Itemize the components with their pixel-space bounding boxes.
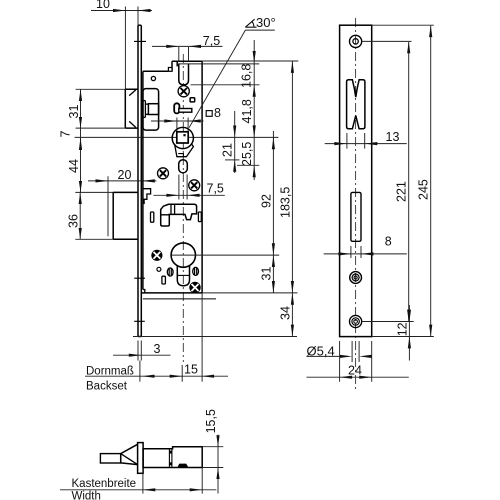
30 degree note with leader [189,15,276,128]
dimension 7,5 (oval hole) [153,175,224,200]
dimension 36 (deadbolt height) [67,192,114,239]
follower centre extension line (y=137.4) [75,136,279,138]
svg-text:21: 21 [221,143,235,157]
small rect right of drive slide [198,212,201,222]
dimension 31 (latch height) [67,89,125,128]
screw S3 [189,180,200,191]
case inner top line [177,63,259,65]
oval centre extension [237,164,259,166]
svg-text:31: 31 [67,105,81,119]
svg-text:10: 10 [96,0,110,11]
small pin circle (case upper left) [151,76,155,80]
top screw hole [350,35,362,47]
drive slide (boot shaped) [161,204,197,226]
small rect left of drive slide [151,212,154,222]
faceplate screw hole ticks [134,41,146,321]
locking pin lever [174,103,192,113]
screw S1 (top phillips) [178,86,189,97]
slot bottom extension [191,84,260,86]
knurled pin right [193,267,199,275]
case bottom-front notch [143,290,145,293]
svg-text:183,5: 183,5 [278,187,292,218]
svg-text:92: 92 [259,194,273,208]
svg-text:7,5: 7,5 [207,181,224,195]
latch tail boss behind faceplate [143,89,159,131]
svg-text:Backset: Backset [86,380,128,392]
Kastenbreite / Width label and dimension [60,468,216,500]
profile cylinder hole [171,243,195,286]
follower cam skirt [175,143,194,156]
svg-text:Width: Width [72,491,101,500]
dimension 183,5 / 34 line [278,61,294,337]
small rect near cylinder [162,276,166,284]
svg-text:13: 13 [386,130,400,144]
screw SB (dark) [189,282,200,293]
dimension 10 (latch projection) [91,0,152,89]
svg-text:Kastenbreite: Kastenbreite [72,478,137,490]
svg-text:8: 8 [214,106,221,120]
cylinder centre extension [171,254,279,256]
latch bolt head [125,89,138,128]
bottom screw hole [350,315,362,327]
svg-text:20: 20 [118,168,132,182]
small square hole [190,98,195,102]
latch bevel tick marks [129,90,136,128]
stair-step bracket behind faceplate [143,189,151,204]
dimension 13 (slot width) [325,130,407,149]
dimension diameter 5,4 [306,341,371,362]
dimension 245 [417,25,433,336]
Dornmass / Backset label and dimension [85,366,228,393]
faceplate (top view) [138,443,144,474]
dimension 15 (axis to case back) [140,293,214,382]
faceplate centreline [355,18,357,389]
small tab on case ledge [168,68,172,72]
middle screw hole [350,272,362,284]
dimension 21 [221,111,240,173]
faceplate bottom extension [133,336,297,338]
dimension 221 [395,41,411,321]
dimension 92 / 31 line [259,131,275,293]
dimension 12 [395,305,411,361]
svg-text:41,8: 41,8 [240,99,254,123]
svg-text:15,5: 15,5 [204,409,218,433]
lower slot [351,192,361,241]
case bottom extension [202,292,297,294]
deadbolt head (side view box) [113,192,138,239]
dimension 44 (axis to deadbolt top) [67,152,82,192]
label square-8 (follower nut) [206,106,221,120]
svg-text:245: 245 [417,179,431,200]
svg-text:24: 24 [348,363,362,377]
faceplate (side view, vertical strip) [138,25,141,336]
extension lines right view [363,25,434,336]
dimension 7 (latch bottom to axis) [59,128,83,152]
oval hole [179,160,188,173]
screw SA (dark) [151,250,162,261]
latch stem (top view) [100,454,120,463]
svg-text:8: 8 [385,235,392,249]
dimension 3 (faceplate thickness) [113,341,171,361]
faceplate outline [340,25,372,336]
dimension 7,5 (top, slot width) [152,34,223,62]
small circle near cylinder [157,267,161,271]
svg-text:Ø5,4: Ø5,4 [307,343,335,358]
svg-text:3: 3 [154,342,161,356]
svg-text:44: 44 [67,159,81,173]
svg-text:34: 34 [278,306,292,320]
latch head (top view wedge) [121,444,138,464]
latch spring slot (top) [179,64,189,85]
svg-text:7: 7 [59,131,73,138]
angle symbol [245,19,256,27]
dimension 24 (faceplate width) [307,341,409,382]
svg-text:31: 31 [259,267,273,281]
svg-text:15: 15 [184,363,198,377]
divider channel [169,449,172,468]
svg-text:221: 221 [395,181,409,202]
screw S2 [158,168,169,179]
case top extension [202,60,298,62]
dimension 15,5 (case height top view) [202,409,223,493]
svg-text:7,5: 7,5 [203,34,220,48]
follower (square nut with cam) [172,127,193,156]
knurled pin left [167,268,173,276]
svg-text:30°: 30° [256,15,276,30]
latch guide slot (pulley shaped) [347,80,365,129]
dimension 20 (deadbolt head) [88,168,156,237]
dimension square-8 leaders [151,118,204,132]
svg-text:36: 36 [67,214,81,228]
lock case outline [142,61,259,299]
bottom tab [177,464,188,468]
centerline axis (lock axis x=183.3) [182,54,184,362]
case inner bottom line [143,298,216,300]
svg-text:12: 12 [395,322,409,336]
case (top view) [143,447,202,468]
dimension 16,8 / 41,8 / 25,5 line [240,40,256,180]
dimension 8 (lower slot width) [324,235,407,259]
svg-text:25,5: 25,5 [240,142,254,166]
